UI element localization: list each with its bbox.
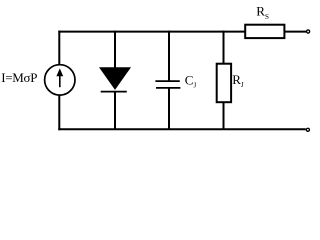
wire: RS to top terminal: [285, 31, 306, 33]
photodiode D (filled triangle, cathode bar): [99, 67, 131, 91]
wire: left branch upper segment: [58, 31, 60, 65]
wire: capacitor branch lower segment: [168, 88, 170, 129]
wire: top rail: [58, 31, 245, 33]
wire: bottom rail: [58, 128, 305, 130]
capacitor CJ (two plates): [155, 81, 180, 88]
wire: RJ branch lower segment: [223, 102, 225, 129]
svg-text:RJ: RJ: [232, 72, 244, 89]
svg-text:I=MσP: I=MσP: [1, 70, 37, 85]
current source I (circle with up arrow): [45, 65, 75, 95]
resistor RJ (vertical box): [217, 64, 231, 102]
terminal: top output node: [307, 30, 310, 33]
wire: diode branch lower segment: [114, 92, 116, 130]
resistor RS (horizontal box): [245, 25, 284, 38]
wire: capacitor branch upper segment: [168, 31, 170, 81]
wire: RJ branch upper segment: [223, 31, 225, 64]
wire: diode branch upper segment: [114, 31, 116, 69]
terminal: bottom output node: [306, 128, 309, 131]
wire: left branch lower segment: [58, 95, 60, 130]
svg-text:CJ: CJ: [185, 72, 197, 89]
svg-text:RS: RS: [256, 4, 269, 21]
